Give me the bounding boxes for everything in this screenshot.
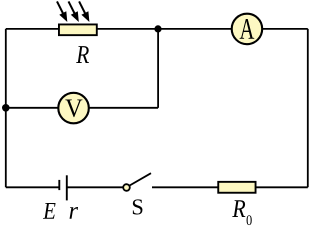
wire: right vertical	[307, 29, 309, 187]
light arrow 1 (illumination onto photoresistor R)	[57, 1, 67, 22]
node junction J2 (left wire / voltmeter branch)	[2, 104, 10, 112]
wire: left vertical	[5, 29, 7, 187]
value label R0	[232, 200, 245, 217]
ammeter A (meter U1)	[232, 14, 263, 45]
voltmeter V (meter U2)	[58, 93, 89, 124]
wire: top horizontal	[6, 28, 308, 30]
light arrow 2 (illumination onto photoresistor R)	[69, 1, 79, 22]
battery E long plate (positive terminal)	[66, 175, 68, 200]
wire: middle vertical (junction to voltmeter branch)	[157, 29, 159, 108]
wire: voltmeter branch horizontal	[6, 107, 158, 109]
value label R (photoresistor)	[76, 46, 89, 63]
value label r (internal resistance)	[70, 207, 79, 219]
wire: battery to switch	[67, 186, 124, 188]
value label E (emf of battery)	[43, 203, 56, 219]
battery E short plate (negative terminal)	[58, 180, 60, 190]
value label S (switch)	[133, 199, 143, 214]
resistor R (photoresistor, light-dependent) body	[59, 24, 97, 35]
wire: bottom horizontal	[6, 186, 60, 188]
switch S pivot	[123, 184, 130, 191]
light arrow 3 (illumination onto photoresistor R)	[79, 1, 89, 22]
node junction J1 (top wire / voltmeter branch)	[154, 25, 161, 32]
resistor R0 body	[218, 182, 255, 193]
switch S lever	[129, 173, 151, 185]
wire: switch to right corner	[152, 186, 308, 188]
